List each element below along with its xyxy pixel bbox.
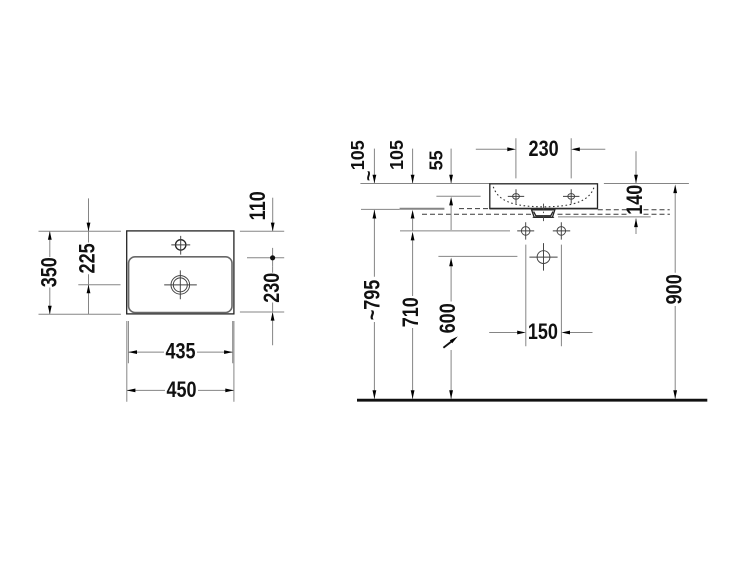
left tap hole symbol (elevation) (508, 189, 524, 203)
svg-text:~795: ~795 (361, 280, 385, 321)
dim 105 arrow down (411, 175, 415, 184)
left fixing bolt crosshair (517, 222, 534, 239)
basin inner bowl rounded rectangle (plan) (129, 257, 232, 313)
dim 225 arrow up (bottom outside) (87, 285, 91, 294)
svg-text:150: 150 (528, 320, 558, 344)
drain inner circle (plan) (173, 278, 187, 292)
dim 350 line (49, 231, 51, 314)
svg-text:105: 105 (348, 140, 368, 170)
hidden edge dashed left of basin (459, 208, 489, 210)
dim 710 arrow down at floor (411, 390, 415, 399)
dim ~795 arrow up (373, 210, 377, 219)
dim 55 arrow up (449, 197, 453, 206)
dim 600 arrow up (449, 258, 453, 267)
dim 435 line (128, 351, 232, 353)
dim 140 arrow down (634, 175, 638, 184)
dim 350 arrow down (48, 306, 52, 315)
dim 55 top line (450, 149, 452, 184)
basin bottom edge thick (490, 208, 598, 210)
drain outlet level line (438, 255, 517, 257)
floor line (357, 399, 707, 402)
dim ~105 arrow down (373, 175, 377, 184)
extension line top-left (plan) (39, 230, 121, 232)
dim 710 arrow up (411, 232, 415, 241)
extension line bottom-left (plan) (39, 313, 121, 315)
faucet hole circle (plan) (176, 240, 186, 250)
svg-text:140: 140 (623, 185, 647, 215)
dim 230 top arrow left-pointing (571, 147, 580, 151)
dim 230 top extension lines (516, 138, 571, 178)
dim 900 line (674, 193, 676, 399)
dim ~795 arrow down at floor (373, 390, 377, 399)
basin outer rim rectangle (plan) (127, 231, 234, 314)
dim 105 top line (412, 149, 414, 184)
basin body rectangle (elevation) (490, 184, 598, 209)
dim 110 line (272, 198, 274, 232)
svg-text:450: 450 (166, 378, 196, 402)
extension line bottom-right (plan) (240, 311, 284, 313)
rim level line left segment (360, 183, 489, 185)
svg-text:~: ~ (359, 171, 379, 182)
fixing bolt level line (400, 230, 510, 232)
basin interior profile dotted arc (493, 187, 594, 207)
dim 230 top arrow right-pointing (507, 147, 516, 151)
dim 710 line (412, 218, 414, 398)
dim 110 arrow down (271, 223, 275, 232)
dim ~795 line (373, 210, 375, 399)
long dashed installation line (422, 213, 670, 215)
dim 230 right line (272, 266, 274, 345)
tap hole level line (436, 195, 480, 197)
dim 225 arrow down (top outside) (87, 223, 91, 232)
dim 230 right arrow up (271, 312, 275, 321)
svg-text:55: 55 (427, 150, 447, 170)
svg-text:225: 225 (76, 243, 100, 273)
drain outlet circle (537, 251, 550, 264)
reference dot terminator (270, 255, 275, 260)
dim 435 arrow left (128, 350, 137, 354)
rim level line right segment (604, 183, 689, 185)
basin bottom level line thin (361, 208, 400, 210)
svg-text:710: 710 (399, 297, 423, 327)
drain fitting trapezoid inner (534, 212, 553, 216)
drain outer circle (plan) (171, 276, 190, 295)
dim 140 top line (635, 151, 637, 183)
dim 150 arrow right-pointing (517, 331, 526, 335)
extension line top-right (plan) (240, 230, 284, 232)
svg-text:110: 110 (246, 191, 270, 220)
counter edge line right (558, 216, 651, 218)
dim 55 bottom arrow line (450, 205, 452, 230)
right fixing bolt circle (557, 227, 566, 236)
drain direction arrow symbol (443, 341, 452, 348)
right fixing bolt crosshair (553, 222, 570, 239)
dim 55 arrow down (449, 175, 453, 184)
dim 150 arrow left-pointing (561, 331, 570, 335)
right tap hole symbol (elevation) (563, 189, 579, 203)
dim 140 arrow up (634, 219, 638, 228)
dim 600 line (450, 266, 452, 399)
left fixing bolt circle (521, 227, 530, 236)
dim 435 arrow right (224, 350, 233, 354)
dim 150 extension lines (526, 245, 562, 347)
svg-text:350: 350 (38, 257, 62, 287)
dim 140 bottom line (635, 219, 637, 235)
extension line mid-right with reference dot (plan) (247, 248, 284, 266)
svg-text:230: 230 (260, 273, 284, 303)
svg-text:230: 230 (529, 137, 559, 161)
dim 230 top line (476, 148, 606, 150)
extension lines for 450 (127, 321, 234, 402)
drain fitting centerline (543, 204, 545, 223)
drain fitting trapezoid outer (532, 210, 555, 217)
dim 150 line (489, 332, 592, 334)
dim 225 line (88, 198, 90, 314)
extension lines for 435 (128, 321, 232, 363)
dim 450 arrow left (127, 389, 136, 393)
svg-text:600: 600 (437, 303, 461, 333)
extension line drain centerline left (plan) (78, 284, 120, 286)
dim 105 bottom arrow up (411, 210, 415, 219)
dim 900 arrow down at floor (673, 390, 677, 399)
svg-text:900: 900 (663, 274, 687, 304)
dim 350 arrow up (48, 231, 52, 240)
dim 450 arrow right (225, 389, 234, 393)
svg-text:105: 105 (387, 140, 407, 170)
hidden edge dashed right of basin (598, 209, 670, 211)
dim 450 line (127, 389, 234, 391)
faucet hole crosshair (171, 236, 190, 255)
drain outlet crosshair (529, 243, 557, 271)
svg-text:435: 435 (165, 340, 195, 364)
dim 900 arrow up (673, 185, 677, 194)
dim 600 arrow down at floor (449, 390, 453, 399)
dim ~105 top line (373, 149, 375, 184)
basin bottom level line thick (400, 208, 445, 210)
drain crosshair (plan) (164, 270, 197, 299)
